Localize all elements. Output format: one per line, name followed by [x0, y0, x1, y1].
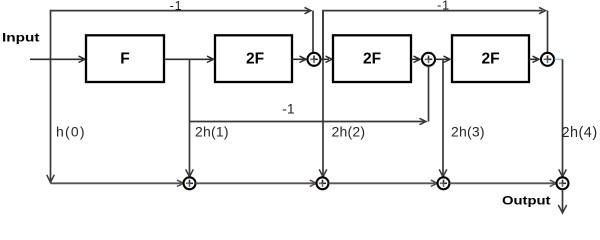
svg-text:2F: 2F	[363, 51, 381, 68]
adder A3	[541, 53, 554, 66]
wire 2F3 to adder A3	[529, 58, 537, 60]
wire top feedforward -1 line 1	[51, 11, 310, 60]
wire tap 2h(4) vertical	[562, 59, 564, 175]
svg-text:Input: Input	[2, 31, 40, 45]
svg-text:2h(1): 2h(1)	[195, 124, 229, 140]
adder B4	[557, 177, 569, 189]
svg-text:2h(3): 2h(3)	[451, 124, 485, 140]
svg-text:2h(2): 2h(2)	[332, 124, 366, 140]
svg-text:2h(4): 2h(4)	[562, 125, 598, 141]
box 2F1	[215, 35, 292, 82]
adder B1	[184, 177, 196, 189]
adder A2	[422, 53, 435, 66]
adder B3	[438, 177, 450, 189]
wire tap 2h(1) vertical	[189, 59, 191, 175]
svg-text:-1: -1	[170, 0, 183, 13]
wire bottom B3 to B4	[450, 182, 555, 184]
svg-text:h(0): h(0)	[56, 124, 86, 140]
svg-text:2F: 2F	[246, 51, 264, 68]
wire A1 to 2F2	[321, 58, 330, 60]
wire 2F1 to adder A1	[292, 58, 304, 60]
box 2F2	[333, 35, 411, 82]
svg-text:F: F	[120, 51, 129, 68]
svg-text:-1: -1	[437, 0, 450, 13]
wire A2 to 2F3	[435, 58, 448, 60]
wire middle -1 feedback to A2	[190, 121, 425, 123]
wire output arrow	[562, 189, 564, 211]
box F	[86, 35, 164, 82]
wire input to F	[30, 58, 83, 60]
wire bottom line to B1	[51, 182, 182, 184]
wire top feedforward -1 line 2	[323, 11, 543, 60]
svg-text:-1: -1	[282, 101, 295, 117]
wire tap h(0) vertical	[50, 59, 52, 183]
adder A1	[308, 53, 321, 66]
wire A3 output short blue segment	[555, 58, 563, 60]
svg-text:2F: 2F	[481, 51, 499, 68]
wire F to 2F1	[164, 58, 212, 60]
wire bottom B2 to B3	[329, 182, 436, 184]
wire 2F2 to adder A2	[411, 58, 418, 60]
svg-text:Output: Output	[502, 194, 551, 208]
wire tap 2h(2) vertical	[322, 11, 324, 175]
box 2F3	[452, 35, 529, 82]
wire bottom B1 to B2	[196, 182, 315, 184]
wire tap 2h(3) vertical	[442, 59, 444, 175]
adder B2	[317, 177, 329, 189]
